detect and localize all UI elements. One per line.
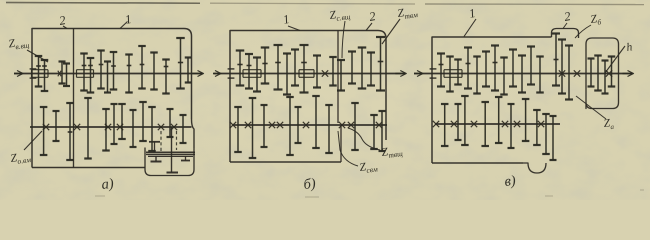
svg-text:б): б) <box>303 176 317 193</box>
svg-text:в): в) <box>504 173 517 190</box>
svg-text:а): а) <box>101 176 115 193</box>
